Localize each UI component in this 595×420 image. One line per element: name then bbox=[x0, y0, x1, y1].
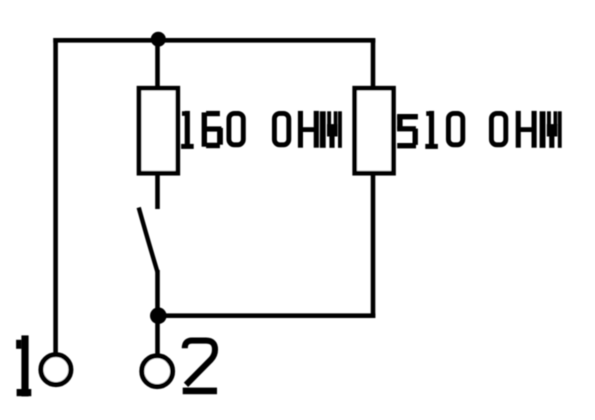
terminal 2 circle bbox=[142, 356, 173, 387]
wire: left vertical from top-left corner down to terminal 1 bbox=[53, 38, 58, 353]
digit 1 bbox=[182, 111, 194, 148]
label: 510 OHM bbox=[398, 111, 562, 148]
resistor R1 body (160 OHM) bbox=[139, 88, 178, 173]
digit 6 bbox=[202, 111, 223, 148]
wire: top horizontal rail bbox=[53, 38, 375, 43]
label: terminal number 2 bbox=[183, 341, 217, 395]
wire: top lead of R2 bbox=[371, 39, 376, 89]
digit 0 bbox=[229, 113, 243, 144]
digit 1 bbox=[426, 111, 438, 148]
switch S1 blade bbox=[139, 208, 158, 273]
digit 0 bbox=[448, 113, 462, 144]
node: top junction dot bbox=[151, 32, 166, 47]
wire: bottom horizontal rail bbox=[158, 313, 376, 318]
terminal 1 circle bbox=[41, 355, 71, 385]
letter O bbox=[274, 113, 288, 144]
letter M bbox=[540, 111, 562, 148]
letter H bbox=[516, 111, 536, 147]
letter O bbox=[491, 113, 505, 144]
wire: R1 bottom lead stub bbox=[155, 176, 160, 210]
wire: bottom lead of R2 bbox=[371, 176, 376, 319]
label: terminal number 1 bbox=[16, 335, 31, 396]
wire: switch to terminal 2 bbox=[155, 270, 160, 354]
label: 160 OHM bbox=[182, 111, 342, 148]
digit 5 bbox=[398, 114, 418, 148]
letter M bbox=[320, 111, 342, 148]
wire: top lead of R1 from node down bbox=[155, 40, 160, 88]
letter H bbox=[298, 111, 318, 147]
node: bottom junction dot bbox=[150, 307, 167, 324]
resistor R2 body (510 OHM) bbox=[355, 88, 394, 173]
